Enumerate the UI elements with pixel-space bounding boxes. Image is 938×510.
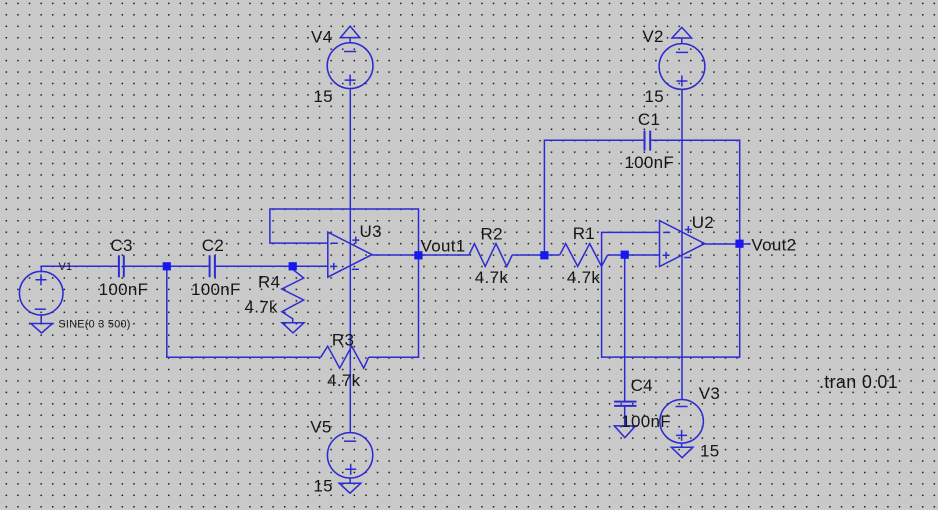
wire R3 up to Vout1 then top feedback loop to U3 - input: [270, 209, 419, 357]
U2 negative supply pin mark: [684, 257, 691, 259]
power wire V4 to U3 to V5: [349, 89, 351, 433]
svg-text:C3: C3: [110, 236, 132, 255]
wire U2 output to Vout2: [705, 243, 751, 245]
svg-text:R1: R1: [573, 224, 595, 243]
U2 non-inverting input mark: [663, 252, 670, 259]
svg-text:4.7k: 4.7k: [475, 268, 509, 287]
wire V1 top stub and main input wire to C3: [41, 266, 118, 272]
svg-text:V5: V5: [310, 418, 331, 437]
op-amp U2: [660, 221, 705, 267]
wire node A to C2: [167, 265, 209, 267]
ground flag above V2: [672, 27, 692, 43]
svg-text:R4: R4: [258, 273, 280, 292]
svg-text:100nF: 100nF: [624, 153, 674, 172]
wire node A down and bottom feedback to R3: [167, 266, 321, 357]
resistor R2: [469, 244, 512, 267]
svg-text:100nF: 100nF: [621, 412, 671, 431]
wire junction up to C1: [544, 140, 643, 255]
capacitor C4: [614, 402, 636, 406]
ground under R4: [282, 323, 304, 333]
voltage source V1: [19, 271, 63, 315]
svg-text:V1: V1: [59, 261, 73, 273]
resistor R4: [282, 266, 304, 322]
svg-text:.tran 0.01: .tran 0.01: [819, 372, 898, 392]
svg-text:Vout1: Vout1: [421, 236, 466, 255]
svg-text:4.7k: 4.7k: [245, 298, 279, 317]
svg-text:V2: V2: [642, 27, 663, 46]
svg-text:4.7k: 4.7k: [327, 371, 361, 390]
wire R2 to R1 through junction: [512, 254, 560, 256]
svg-text:100nF: 100nF: [99, 280, 149, 299]
svg-text:C2: C2: [202, 236, 224, 255]
voltage source V3: [660, 400, 704, 444]
svg-text:100nF: 100nF: [191, 280, 241, 299]
resistor R3: [321, 346, 369, 368]
svg-text:15: 15: [313, 477, 333, 496]
svg-text:U2: U2: [692, 213, 714, 232]
wire C1 right down around bottom to U2 - input: [602, 140, 740, 357]
svg-text:R2: R2: [481, 225, 503, 244]
svg-text:15: 15: [645, 87, 665, 106]
wire U3 output to R2: [372, 254, 469, 256]
junction node Vout1: [414, 251, 422, 259]
U3 positive supply pin mark: [352, 237, 359, 244]
capacitor C1: [645, 131, 651, 151]
junction node A: [163, 262, 171, 270]
svg-text:4.7k: 4.7k: [567, 268, 601, 287]
U3 inverting input mark: [331, 242, 338, 244]
wire C2 through node B to U3 + input: [216, 265, 328, 267]
svg-text:U3: U3: [360, 222, 382, 241]
wire C4 to ground: [624, 407, 626, 426]
op-amp U3: [328, 232, 372, 277]
svg-text:SINE(0 3 500): SINE(0 3 500): [58, 319, 130, 331]
junction node B: [289, 262, 297, 270]
ground under V5: [339, 478, 361, 493]
svg-text:15: 15: [313, 87, 333, 106]
ground under V1: [31, 314, 53, 333]
svg-text:V3: V3: [699, 384, 720, 403]
wire C3 to node A: [125, 265, 167, 267]
junction node Vout2: [735, 240, 743, 248]
wire R1 to U2 + input through junction: [608, 254, 660, 256]
ground flag above V4: [340, 26, 359, 43]
svg-text:Vout2: Vout2: [751, 235, 796, 254]
ground under V3: [671, 443, 693, 458]
svg-text:15: 15: [700, 442, 720, 461]
U3 negative supply pin mark: [352, 268, 359, 270]
junction node between R1 and U2: [621, 251, 629, 259]
power wire V2 to U2 to V3: [681, 89, 683, 399]
capacitor C2: [210, 255, 215, 277]
ground under C4: [614, 426, 635, 438]
wire junction down to C4: [624, 255, 626, 401]
junction node between R2 and R1: [540, 251, 548, 259]
svg-text:V4: V4: [311, 28, 332, 47]
U2 positive supply pin mark: [685, 226, 692, 233]
svg-text:R3: R3: [332, 330, 354, 349]
U2 inverting input mark: [663, 231, 670, 233]
voltage source V2: [659, 44, 705, 90]
U3 non-inverting input mark: [330, 263, 337, 270]
capacitor C3: [119, 255, 124, 277]
svg-text:C1: C1: [638, 110, 660, 129]
svg-text:C4: C4: [631, 376, 653, 395]
resistor R1: [560, 244, 608, 267]
voltage source V4: [327, 43, 373, 89]
voltage source V5: [327, 433, 372, 478]
